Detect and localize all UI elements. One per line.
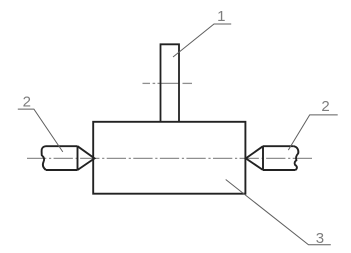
part 2 right center: cone point: [246, 146, 263, 170]
svg-text:3: 3: [316, 230, 324, 247]
leader line for left label 2: [18, 109, 63, 152]
leader line for label 3: [226, 180, 331, 245]
svg-text:1: 1: [217, 8, 225, 25]
horizontal centerline (main axis): [27, 157, 312, 159]
leader line for right label 2: [288, 115, 337, 150]
svg-text:2: 2: [321, 98, 329, 115]
part 2 left center: cone point: [78, 146, 95, 170]
centerline through part 1 stem: [143, 82, 193, 84]
part 2 right center: body: [246, 146, 299, 170]
part 2 left center: break line: [42, 146, 46, 170]
part 1 stem: [161, 44, 180, 122]
leader line for label 1: [173, 24, 231, 57]
part 2 left center: body: [42, 146, 95, 170]
part 3 body rectangle: [93, 122, 245, 194]
svg-text:2: 2: [23, 94, 31, 111]
part 2 right center: break line: [294, 146, 299, 170]
